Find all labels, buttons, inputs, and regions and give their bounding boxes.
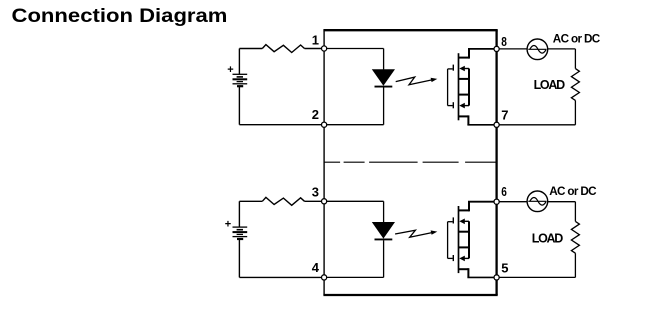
optical coupling arrow channel 2 [395, 230, 437, 237]
wire load R2 top lead [574, 49, 576, 69]
wire pin 6 to AC source V2 [499, 201, 527, 203]
package box top edge (thick) [323, 29, 497, 31]
MOSFET Q1 upper source stub [459, 78, 470, 80]
svg-text:2: 2 [312, 107, 319, 122]
LED D1 [372, 69, 395, 86]
node pin 2 [322, 122, 327, 127]
wire battery B1 top lead [238, 49, 240, 75]
AC source V1 [527, 39, 548, 60]
MOSFET Q2 upper body arrow [459, 219, 469, 225]
node pin 4 [322, 275, 327, 280]
wire battery B1 to pin 2 [239, 124, 321, 126]
svg-text:3: 3 [312, 185, 319, 200]
MOSFET Q2 lower body arrow [459, 256, 469, 262]
resistor R1 [262, 45, 304, 53]
node pin 7 [494, 122, 499, 127]
MOSFET Q2 lower source stub [459, 246, 470, 248]
node pin 6 [494, 199, 499, 204]
package box right edge (thick) [495, 30, 497, 295]
wire battery B2 top lead [238, 201, 240, 227]
load resistor R2 [571, 69, 579, 101]
MOSFET pair Q2 channel bar [458, 206, 460, 273]
MOSFET Q2 lower drain elbow [467, 268, 469, 277]
wire resistor R3 to pin 3 [305, 200, 322, 202]
wire AC source V1 to load R2 [548, 48, 576, 50]
wire LED D2 anode lead [383, 201, 385, 222]
wire load R4 bottom lead [574, 253, 576, 277]
MOSFET pair Q1 gate bus [448, 65, 454, 109]
svg-text:AC or DC: AC or DC [553, 32, 601, 45]
wire battery B2 to pin 4 [239, 276, 321, 278]
wire battery B1 to resistor R1 [239, 48, 262, 50]
wire MOSFET Q2 upper drain to pin 6 [468, 201, 494, 203]
MOSFET Q1 source tie bar [468, 69, 470, 106]
svg-text:4: 4 [312, 260, 320, 275]
MOSFET Q2 lower drain stub [459, 268, 469, 270]
MOSFET Q1 lower drain elbow [467, 115, 469, 124]
wire battery B1 bottom lead [238, 86, 240, 125]
svg-text:LOAD: LOAD [534, 78, 565, 92]
wire resistor R1 to pin 1 [305, 48, 322, 50]
MOSFET Q2 source tie bar [468, 221, 470, 258]
AC source V2 [527, 191, 548, 212]
optical coupling arrow channel 1 [396, 77, 438, 85]
svg-text:5: 5 [501, 260, 508, 275]
MOSFET Q1 upper drain stub [459, 57, 470, 59]
wire LED D1 cathode lead [383, 88, 385, 125]
wire load R4 to pin 5 [499, 276, 575, 278]
wire load R4 top lead [574, 202, 576, 222]
LED D2 [372, 222, 395, 239]
package box left edge [323, 30, 325, 295]
MOSFET pair Q2 gate bus [448, 217, 454, 261]
wire load R2 to pin 7 [499, 124, 575, 126]
MOSFET Q1 upper drain elbow [468, 49, 470, 59]
wire MOSFET Q2 lower drain to pin 5 [467, 276, 494, 278]
dashed channel divider [324, 161, 497, 163]
wire LED D1 anode lead [383, 49, 385, 70]
battery B2 [233, 227, 248, 239]
wire battery B2 to resistor R3 [239, 200, 262, 202]
wire battery B2 bottom lead [238, 239, 240, 277]
svg-text:6: 6 [501, 184, 507, 199]
svg-text:LOAD: LOAD [532, 231, 563, 245]
package box bottom edge (thick) [323, 294, 497, 296]
wire pin 3 to LED D2 anode [327, 200, 384, 202]
node pin 8 [494, 46, 499, 51]
MOSFET Q2 upper source stub [459, 231, 470, 233]
wire AC source V2 to load R4 [548, 201, 576, 203]
svg-text:Connection Diagram: Connection Diagram [12, 6, 228, 27]
wire LED D2 cathode to pin 4 [327, 276, 384, 278]
MOSFET Q1 lower source stub [459, 94, 470, 96]
resistor R3 [262, 197, 304, 205]
wire pin 1 to LED D1 anode [327, 48, 384, 50]
wire pin 8 to AC source V1 [499, 48, 527, 50]
MOSFET pair Q1 channel bar [458, 53, 460, 120]
MOSFET Q1 upper body arrow [459, 66, 469, 72]
wire LED D2 cathode lead [383, 240, 385, 277]
wire MOSFET Q1 upper drain to pin 8 [468, 48, 494, 50]
load resistor R4 [571, 221, 579, 253]
node pin 1 [322, 46, 327, 51]
svg-text:1: 1 [312, 32, 319, 47]
MOSFET Q1 lower body arrow [459, 103, 469, 109]
battery B1 [233, 74, 248, 86]
node pin 3 [322, 199, 327, 204]
wire load R2 bottom lead [574, 100, 576, 124]
MOSFET Q2 upper drain elbow [468, 202, 470, 212]
wire LED D1 cathode to pin 2 [327, 124, 384, 126]
wire MOSFET Q1 lower drain to pin 7 [467, 124, 494, 126]
svg-text:+: + [225, 219, 231, 231]
MOSFET Q1 lower drain stub [459, 115, 469, 117]
svg-text:8: 8 [501, 34, 507, 49]
MOSFET Q2 upper drain stub [459, 209, 470, 211]
svg-text:AC or DC: AC or DC [549, 185, 597, 198]
svg-text:7: 7 [501, 107, 508, 122]
node pin 5 [494, 275, 499, 280]
